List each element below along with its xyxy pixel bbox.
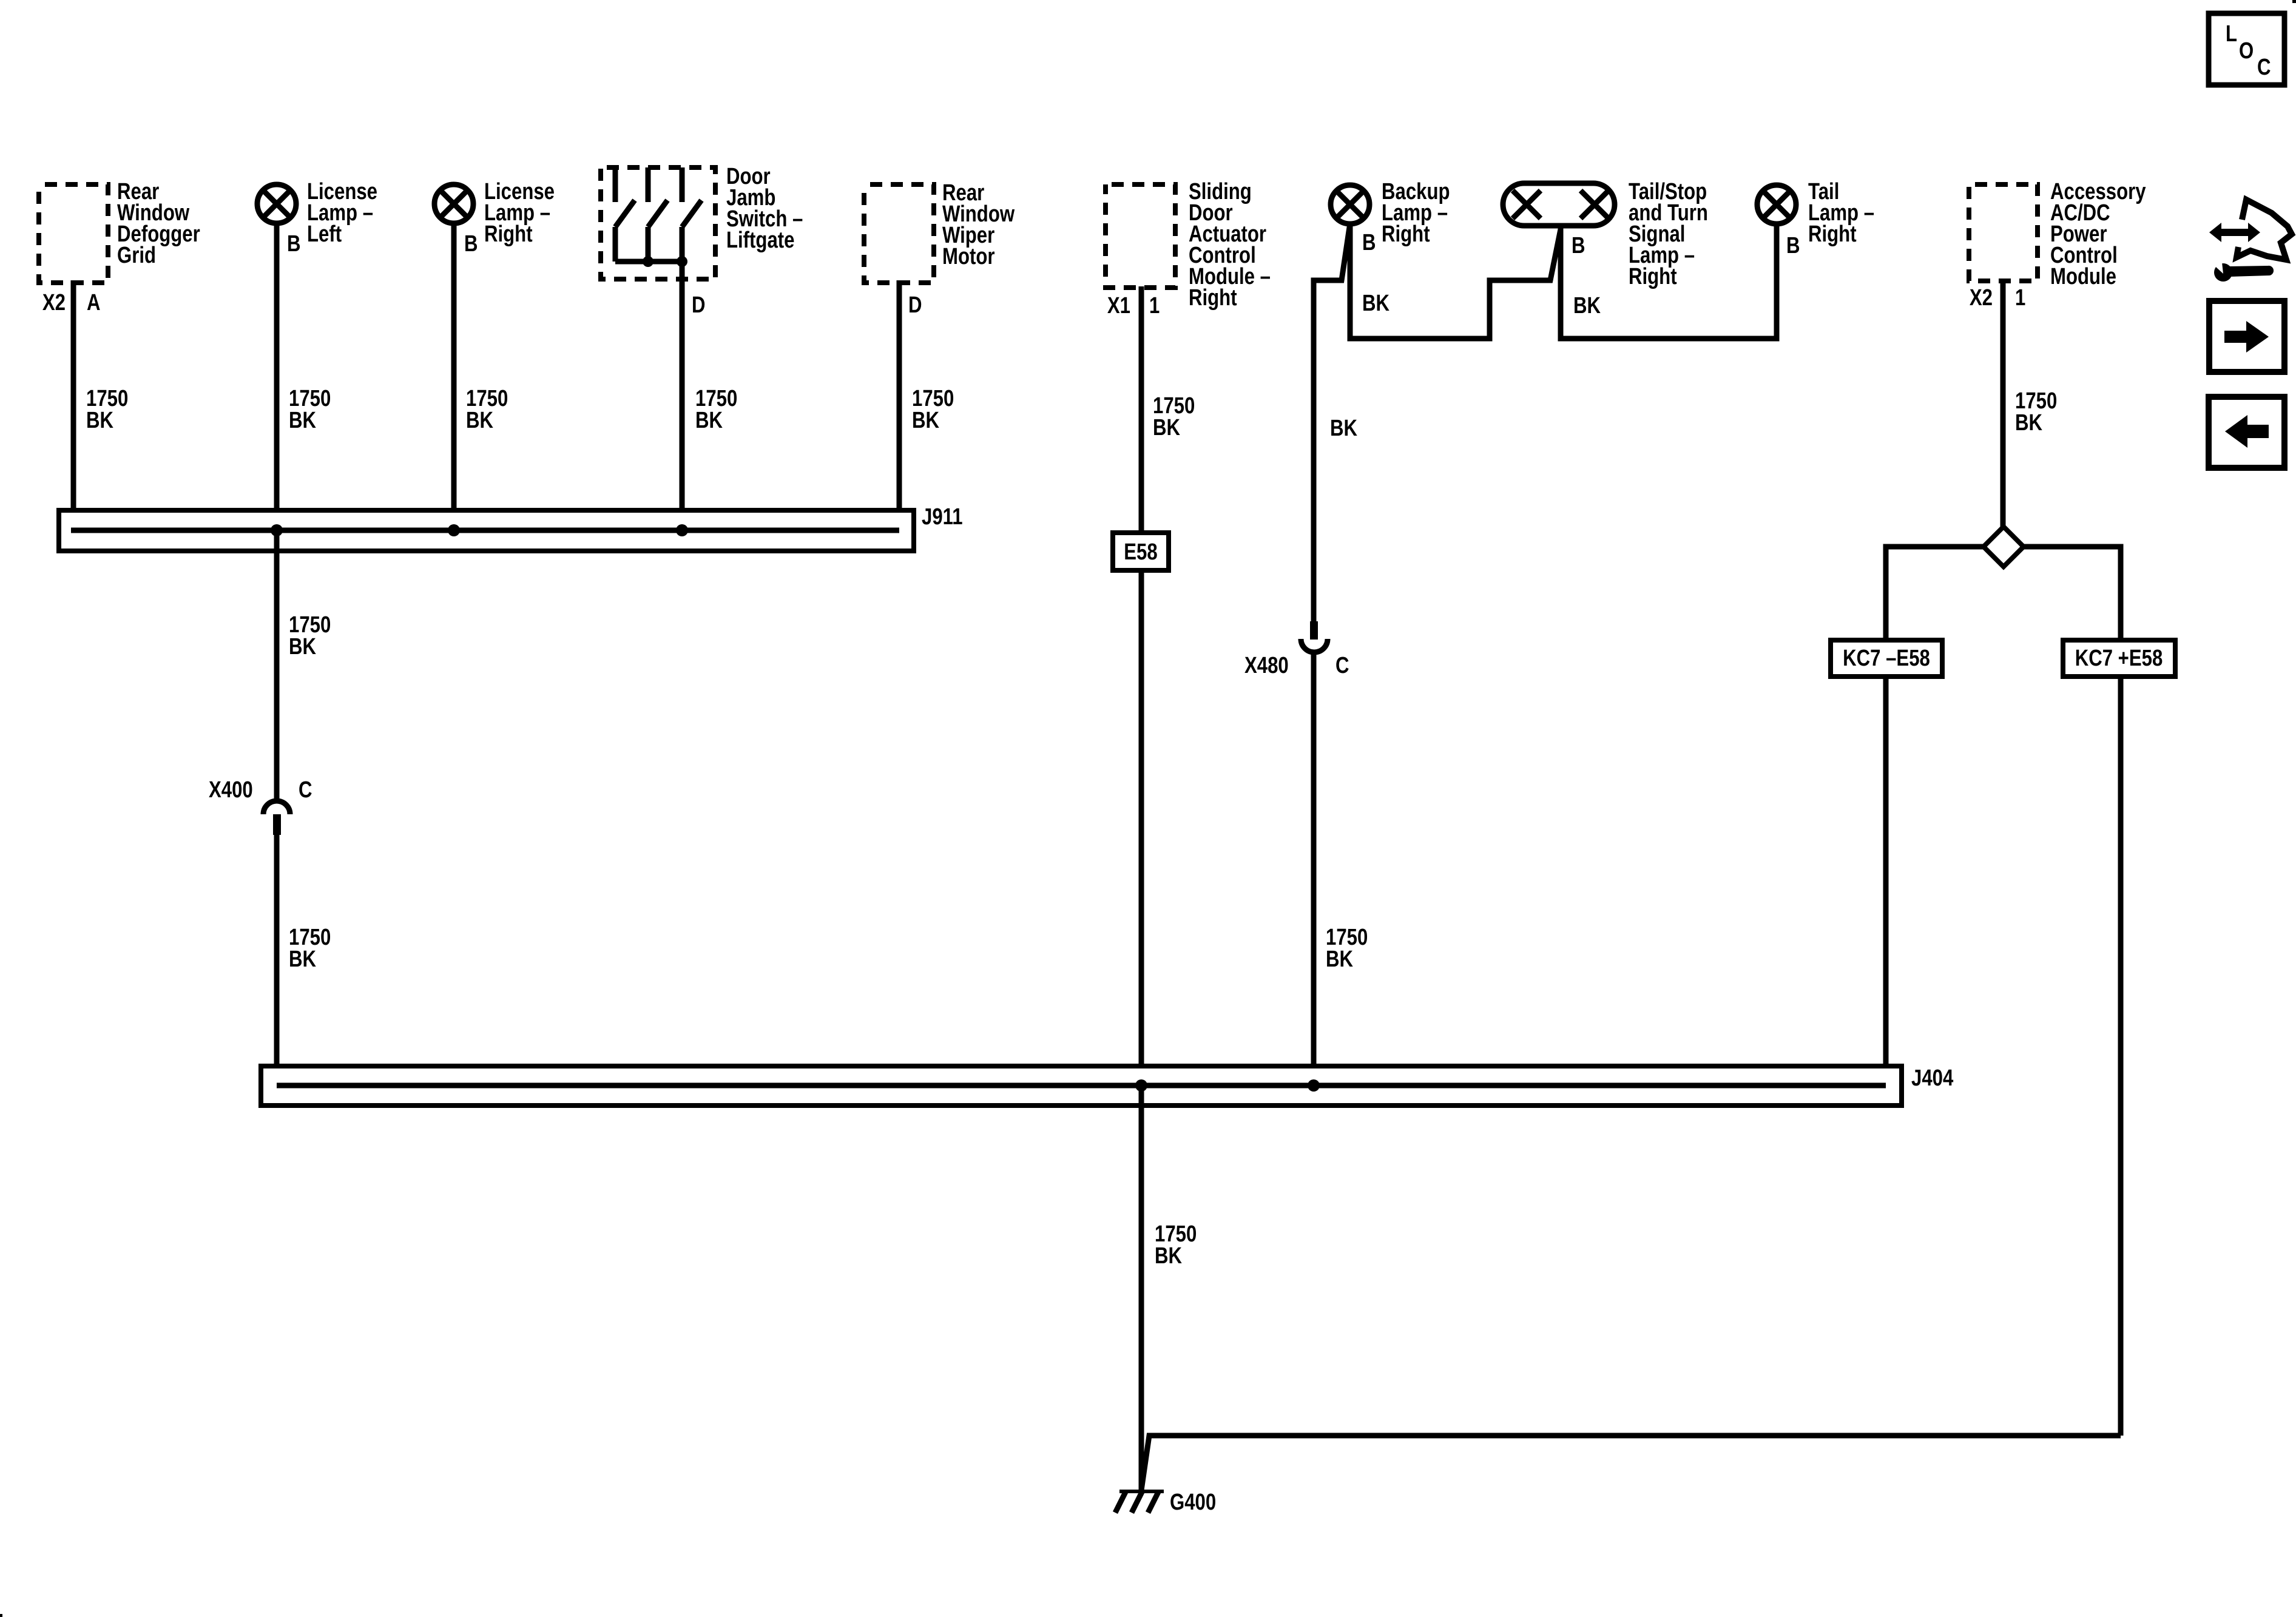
wire X400 to J404 xyxy=(277,835,331,1085)
svg-text:X480: X480 xyxy=(1244,653,1289,678)
pin D label door jamb xyxy=(692,292,706,318)
scan artifact top right xyxy=(2292,0,2296,3)
svg-text:C: C xyxy=(1335,653,1349,678)
wire X480 to J404 xyxy=(1314,652,1368,1085)
svg-text:Module: Module xyxy=(2050,264,2116,289)
right arrow box icon xyxy=(2209,301,2284,372)
connector X2 pin A label xyxy=(42,290,101,316)
svg-text:Right: Right xyxy=(1189,285,1237,311)
wire tail/stop to tail lamp xyxy=(1561,223,1777,339)
diamond junction xyxy=(1984,527,2024,567)
svg-text:C: C xyxy=(299,777,312,803)
wire license left to J911 xyxy=(277,222,331,530)
wire defogger to J911 xyxy=(73,280,128,530)
svg-text:1: 1 xyxy=(2015,285,2025,311)
wire backup lamp left drop to X480 xyxy=(1314,223,1389,621)
svg-text:BK: BK xyxy=(1330,416,1357,441)
svg-text:O: O xyxy=(2239,38,2254,64)
wire accessory to diamond xyxy=(2003,280,2057,527)
connector X480 C xyxy=(1244,621,1349,678)
svg-text:B: B xyxy=(1572,233,1585,258)
wire diamond right branch to KC7+E58 xyxy=(2023,547,2121,640)
svg-text:Motor: Motor xyxy=(942,244,994,269)
svg-text:X2: X2 xyxy=(1970,285,1993,311)
svg-text:Left: Left xyxy=(307,221,342,247)
svg-text:BK: BK xyxy=(86,408,113,433)
accessory AC/DC power control module (dashed box) xyxy=(1969,179,2146,289)
svg-text:BK: BK xyxy=(1362,291,1389,316)
node junction J911 license left xyxy=(271,524,283,536)
lamp license right xyxy=(434,179,555,257)
connector X2 pin 1 label accessory xyxy=(1970,285,2025,311)
pin D label wiper xyxy=(908,292,922,318)
lamp backup right xyxy=(1331,179,1450,255)
lamp tail right xyxy=(1757,179,1874,258)
door jamb switch liftgate (dashed box) xyxy=(601,164,803,279)
svg-text:BK: BK xyxy=(1153,415,1180,441)
svg-text:X1: X1 xyxy=(1107,293,1130,319)
svg-text:D: D xyxy=(692,292,706,318)
svg-text:A: A xyxy=(87,290,101,316)
svg-text:BK: BK xyxy=(289,947,316,972)
svg-text:D: D xyxy=(908,292,922,318)
svg-text:Right: Right xyxy=(484,221,533,247)
svg-text:B: B xyxy=(464,231,478,257)
node junction J911 license right xyxy=(448,524,460,536)
net label KC7 +E58 xyxy=(2063,640,2175,677)
svg-text:BK: BK xyxy=(912,408,939,433)
splice pack J911 xyxy=(59,504,963,551)
node junction J404 X480 wire xyxy=(1308,1079,1320,1092)
svg-text:KC7 –E58: KC7 –E58 xyxy=(1843,646,1930,671)
node junction J911 door jamb xyxy=(676,524,688,536)
svg-text:BK: BK xyxy=(1326,947,1353,972)
wire J404 to ground G400 xyxy=(1141,1085,1197,1491)
svg-text:Liftgate: Liftgate xyxy=(726,228,794,253)
svg-text:1: 1 xyxy=(1149,293,1160,319)
svg-text:Right: Right xyxy=(1382,221,1430,247)
svg-text:J404: J404 xyxy=(1911,1065,1954,1091)
svg-text:Grid: Grid xyxy=(117,243,156,268)
svg-text:Right: Right xyxy=(1808,221,1857,247)
svg-text:E58: E58 xyxy=(1124,539,1157,565)
wire bottom horizontal to ground xyxy=(1141,1436,2121,1490)
svg-text:C: C xyxy=(2257,55,2271,80)
node junction J404 E58 wire xyxy=(1135,1079,1147,1092)
wire wiper to J911 xyxy=(899,280,954,530)
net label KC7 -E58 xyxy=(1831,640,1942,677)
splice pack J404 xyxy=(261,1065,1954,1106)
tool/diagnostic icon xyxy=(2209,200,2292,282)
svg-text:X2: X2 xyxy=(42,290,66,316)
splice E58 box xyxy=(1113,533,1169,570)
wire E58 to J404 xyxy=(1139,570,1144,1085)
switch contacts and blades xyxy=(615,167,701,267)
svg-text:BK: BK xyxy=(1155,1243,1182,1269)
scan artifact bottom left xyxy=(0,1614,2,1617)
svg-text:B: B xyxy=(287,231,301,257)
svg-text:BK: BK xyxy=(289,634,316,660)
wire diamond left branch to KC7-E58 xyxy=(1886,547,1984,640)
wire backup chain to tail/stop xyxy=(1350,223,1561,339)
connector X400 C xyxy=(209,777,312,835)
svg-text:BK: BK xyxy=(2015,410,2042,436)
connector X1 pin 1 label xyxy=(1107,293,1160,319)
svg-text:BK: BK xyxy=(466,408,493,433)
svg-text:B: B xyxy=(1786,233,1800,258)
wire sliding door to E58 xyxy=(1141,286,1195,533)
lamp license left xyxy=(257,179,377,257)
svg-text:Right: Right xyxy=(1629,264,1677,289)
wire KC7+E58 to bottom xyxy=(2118,677,2124,1436)
svg-text:X400: X400 xyxy=(209,777,253,803)
tail/stop and turn signal lamp right xyxy=(1503,179,1708,319)
LOC box icon xyxy=(2209,13,2284,85)
svg-text:BK: BK xyxy=(289,408,316,433)
svg-text:G400: G400 xyxy=(1170,1490,1216,1515)
wire KC7-E58 to J404 xyxy=(1883,677,1889,1085)
rear window defogger grid (dashed box) xyxy=(39,179,200,283)
svg-text:B: B xyxy=(1362,230,1376,255)
svg-text:L: L xyxy=(2226,21,2237,47)
wire door jamb to J911 xyxy=(682,262,737,530)
svg-text:J911: J911 xyxy=(922,504,963,530)
left arrow box icon xyxy=(2209,397,2284,468)
svg-text:BK: BK xyxy=(1573,293,1601,319)
ground G400 xyxy=(1115,1490,1216,1515)
svg-text:KC7 +E58: KC7 +E58 xyxy=(2075,646,2163,671)
wire J911 to X400 xyxy=(277,530,331,801)
sliding door actuator control module right (dashed box) xyxy=(1106,179,1271,311)
wire license right to J911 xyxy=(454,222,508,530)
rear window wiper motor (dashed box) xyxy=(864,180,1015,283)
svg-text:BK: BK xyxy=(695,408,723,433)
